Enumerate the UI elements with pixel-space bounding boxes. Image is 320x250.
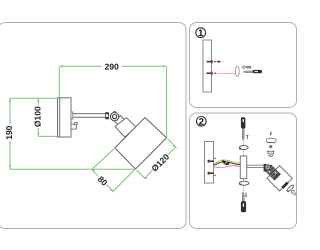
finial arrow [270, 131, 272, 135]
socket hatched [265, 164, 281, 180]
arm [71, 112, 106, 119]
guide line (pink) [217, 72, 236, 74]
dim D120 [137, 139, 177, 179]
step number 2 [197, 117, 207, 127]
bracket plate [240, 156, 246, 179]
swivel knob [110, 112, 118, 121]
canopy edge-on oval [235, 66, 239, 76]
left box frame [0, 23, 186, 229]
push arrow (white outline) [242, 66, 247, 69]
screw arrow shade (white outline) [290, 189, 297, 196]
dashed guide top 2 (red) [242, 150, 244, 155]
screwdriver top [241, 117, 246, 139]
clamp bracket [105, 112, 108, 119]
shade panel 2 [267, 166, 292, 191]
wall anchor 2 [207, 72, 213, 75]
screwdriver panel 1 [243, 70, 262, 73]
wall anchor 1 [207, 60, 213, 63]
dim 290 [59, 65, 166, 137]
screwdriver bottom [241, 191, 246, 212]
screw 1 [217, 61, 221, 63]
live wire (dark) [214, 161, 241, 165]
wall section panel 1 [203, 40, 212, 92]
screw arrow B (red) [213, 175, 216, 177]
shade [115, 118, 167, 170]
threaded screw [268, 145, 274, 156]
knob panel 2 [265, 165, 270, 170]
rotate ellipse bottom [239, 181, 249, 185]
dim 80 [92, 149, 135, 192]
earth wire (yellow-green) [214, 160, 241, 164]
insert arrow 2 (red) [213, 72, 217, 74]
wire connector [222, 160, 230, 165]
finial cup [266, 138, 276, 142]
collar [115, 118, 136, 137]
small screw bottom [245, 193, 247, 197]
small screw top-right [247, 135, 249, 139]
panel 1 frame [190, 23, 297, 108]
clamp dark panel 2 [264, 164, 266, 172]
mount screw B [208, 172, 214, 175]
rotate ellipse shade [286, 184, 294, 192]
dim D100 [37, 98, 57, 136]
dashed guide bottom 2 (red) [243, 186, 245, 191]
switch [71, 123, 77, 129]
dashed guide top (red) [242, 140, 244, 145]
panel 2 frame [190, 113, 297, 229]
neck [115, 116, 126, 127]
socket band [282, 183, 287, 188]
step number 1 [196, 28, 206, 38]
rotate ellipse top [239, 146, 249, 150]
neutral wire (pink) [214, 166, 241, 168]
canopy base [58, 98, 72, 137]
arm panel 2 [247, 165, 264, 167]
small screw top [247, 66, 251, 68]
dashed guide bottom (red) [243, 179, 245, 181]
mount screw A [208, 160, 214, 163]
insert arrow 1 (red) [213, 61, 217, 63]
screw arrow A (red) [213, 158, 216, 160]
wall section panel 2 [205, 142, 214, 184]
dim 190 [9, 98, 135, 169]
